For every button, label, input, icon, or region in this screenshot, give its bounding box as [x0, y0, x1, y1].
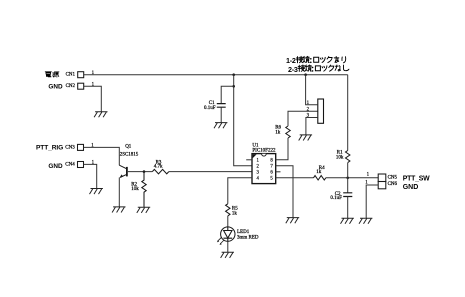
wire IC pin5 to R4	[276, 177, 314, 179]
svg-text:PTT_SW: PTT_SW	[403, 175, 430, 182]
wire R3 to IC pin3	[169, 171, 252, 173]
wire CN4 to ground	[84, 164, 97, 188]
wire IC pin4 to R5	[228, 178, 252, 204]
wire C2 to ground	[347, 197, 349, 219]
svg-text:PIC10F222: PIC10F222	[252, 149, 276, 154]
svg-text:Q1: Q1	[125, 144, 132, 149]
wire R4 to CN5 node	[326, 177, 378, 179]
wire node to C2	[347, 178, 349, 193]
wire Q1 base to node	[128, 171, 152, 173]
wire VDD drop to IC pin2	[234, 75, 252, 166]
svg-text:1k: 1k	[275, 131, 281, 136]
connector CN4	[65, 162, 83, 168]
connector CN6	[378, 182, 397, 189]
capacitor C1	[204, 101, 226, 111]
ground (R2)	[137, 207, 150, 213]
svg-text:2-3: 2-3	[288, 65, 298, 74]
ground (switch pin3)	[299, 135, 312, 141]
wire R1 to node	[347, 163, 349, 178]
svg-text:CN6: CN6	[388, 182, 398, 187]
note line2 2-3接続:ロックなし	[288, 65, 349, 74]
svg-text:GND: GND	[48, 84, 63, 91]
connector CN3	[65, 144, 83, 150]
ground (LED1)	[221, 252, 234, 258]
resistor R4 1k	[314, 166, 326, 180]
junction dot switch drop	[304, 73, 307, 76]
note line1 1-2接続:ロックあり	[286, 56, 346, 65]
resistor R3 4.7k	[152, 161, 169, 174]
svg-text:1k: 1k	[316, 170, 322, 175]
wire CN6 to ground	[366, 185, 378, 218]
wire rail down to R1	[347, 75, 349, 151]
connector CN5	[378, 174, 397, 182]
svg-text:CN5: CN5	[388, 176, 398, 181]
svg-text:CN4: CN4	[65, 163, 75, 168]
ground (C1)	[214, 123, 227, 129]
wire CN3 to Q1 collector	[84, 147, 120, 165]
ground (IC pin7)	[286, 218, 299, 224]
connector CN1	[66, 72, 84, 78]
svg-text:LED1: LED1	[237, 230, 250, 235]
svg-text:GND: GND	[48, 163, 63, 170]
LED LED1 3mm RED	[217, 227, 259, 245]
wire IC pin8 to R6	[276, 138, 288, 160]
wire R5 to LED1	[227, 216, 229, 227]
wire C1 to ground	[220, 107, 222, 122]
svg-text:10k: 10k	[336, 156, 344, 161]
resistor R5 1k	[226, 204, 239, 217]
junction dot base node	[143, 170, 146, 173]
svg-text:4.7k: 4.7k	[154, 164, 163, 169]
svg-text:PTT_RIG: PTT_RIG	[36, 145, 63, 152]
resistor R1 10k	[336, 151, 350, 163]
svg-text:CN3: CN3	[65, 146, 75, 151]
svg-text:3mm RED: 3mm RED	[237, 236, 259, 241]
switch SW1 lock jumper	[318, 99, 324, 123]
junction dot VDD drop	[232, 73, 235, 76]
ground (C2)	[341, 218, 354, 224]
resistor R6 1k	[275, 126, 290, 139]
svg-text:2SC1815: 2SC1815	[120, 153, 139, 158]
wire LED1 to ground	[227, 241, 229, 252]
svg-text:1k: 1k	[232, 212, 238, 217]
wire R6 to switch pin2	[288, 111, 318, 126]
svg-text:CN1: CN1	[66, 73, 76, 78]
svg-text:GND: GND	[403, 184, 419, 191]
wire switch pin3 to ground	[306, 118, 318, 135]
label 電源 (power)	[45, 72, 59, 77]
resistor R2 10k	[131, 172, 146, 208]
wire IC pin1 stub NC	[246, 159, 252, 161]
ground (CN6)	[359, 218, 372, 224]
wire IC pin7 to ground	[276, 166, 293, 218]
wire rail to switch pin1	[306, 75, 318, 105]
ground (CN2)	[94, 112, 107, 118]
svg-text:U1: U1	[252, 143, 259, 148]
ground (CN4)	[90, 189, 103, 195]
wire Q1 emitter to ground	[118, 178, 120, 207]
op IC U1 PIC10F222	[252, 143, 276, 183]
svg-text:0.1uF: 0.1uF	[330, 196, 342, 201]
transistor Q1 2SC1815	[119, 144, 139, 178]
svg-text:CN2: CN2	[66, 84, 76, 89]
svg-text:0.1uF: 0.1uF	[204, 106, 216, 111]
wire C1 branch	[221, 86, 234, 103]
wire VCC rail from CN1	[84, 74, 348, 76]
junction dot PTT_SW node	[346, 177, 349, 180]
capacitor C2	[330, 192, 352, 201]
wire IC pin6 stub NC	[276, 171, 281, 173]
junction dot C1 tap	[232, 85, 235, 88]
connector CN2	[66, 83, 84, 89]
wire CN2 to ground	[84, 86, 102, 112]
ground (Q1 emitter)	[112, 207, 125, 213]
svg-text:10k: 10k	[131, 187, 139, 192]
